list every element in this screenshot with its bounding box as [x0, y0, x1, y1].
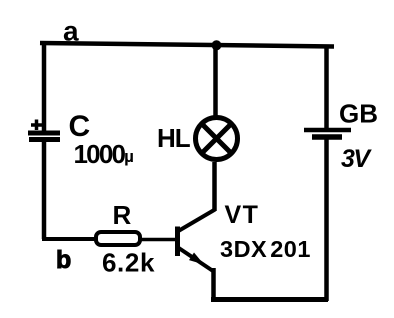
lamp HL circle: [196, 118, 238, 160]
lamp HL cross: [202, 124, 232, 154]
resistor R body: [96, 232, 140, 245]
wire left vertical lower: [42, 141, 47, 239]
svg-text:b: b: [56, 246, 71, 274]
wire right vertical upper: [324, 45, 329, 130]
svg-text:R: R: [113, 200, 132, 230]
capacitor C plates: [28, 133, 60, 140]
svg-text:1000µ: 1000µ: [74, 139, 134, 169]
wire bottom-left horizontal to resistor: [42, 237, 96, 241]
svg-text:HL: HL: [157, 123, 191, 153]
svg-text:6.2k: 6.2k: [102, 248, 155, 278]
wire bottom horizontal: [211, 297, 328, 302]
node a junction dot: [212, 40, 222, 50]
svg-text:VT: VT: [225, 201, 260, 229]
svg-text:GB: GB: [339, 99, 378, 129]
transistor VT emitter arrow: [189, 253, 204, 265]
svg-text:a: a: [63, 16, 79, 47]
battery GB short plate: [312, 134, 342, 140]
wire top horizontal a-to-right: [40, 43, 334, 47]
wire lamp top vertical: [213, 45, 218, 117]
wire emitter vertical down: [211, 268, 216, 299]
transistor VT emitter diagonal: [178, 248, 213, 272]
svg-text:3DX201: 3DX201: [220, 236, 311, 262]
transistor VT collector diagonal: [178, 210, 216, 232]
wire resistor to transistor base: [141, 238, 176, 242]
wire collector vertical to lamp: [212, 162, 217, 211]
svg-text:3V: 3V: [341, 145, 372, 173]
battery GB long plate: [304, 128, 351, 133]
wire right vertical lower: [324, 139, 329, 301]
capacitor C1 plus polarity mark: [31, 120, 42, 131]
transistor VT base bar: [175, 227, 180, 257]
wire left vertical upper: [42, 41, 47, 131]
